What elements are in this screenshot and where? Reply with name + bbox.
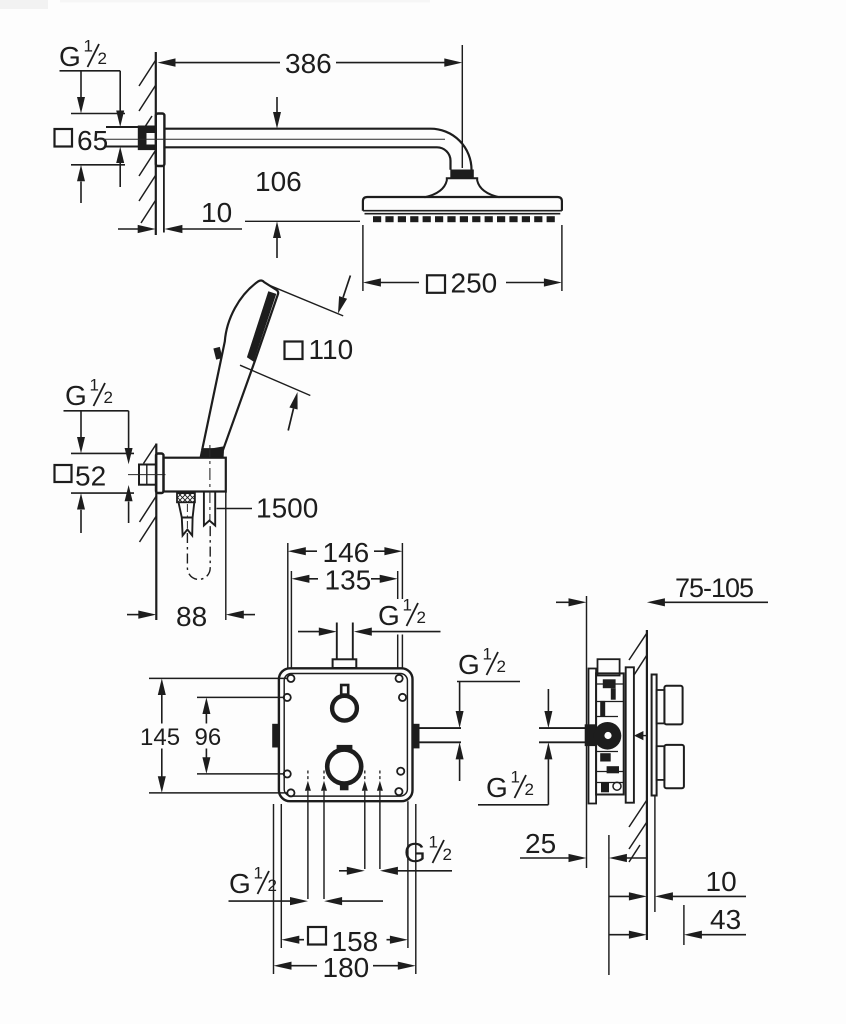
dimension square-110 extension line upper [269, 285, 343, 316]
wall hatching top (side view) [629, 633, 647, 675]
holder centre line (dash-dot) [209, 445, 211, 521]
dimension 386 extension line [461, 45, 463, 168]
svg-text:G: G [404, 837, 426, 868]
hose connection nut (cross hatched) [177, 493, 195, 502]
hose centre line in protector [186, 504, 188, 528]
slash of G1/2 hand shower [94, 383, 106, 406]
box screw holes [284, 675, 407, 797]
dimension square-250 extension lines [363, 225, 562, 291]
bottom handle (side view) [657, 745, 684, 788]
svg-text:146: 146 [323, 537, 370, 568]
label square-110 [285, 334, 354, 365]
leader underline of G1/2 top left [60, 70, 121, 72]
svg-text:2: 2 [104, 388, 113, 407]
plaster guard [626, 667, 634, 802]
svg-text:1: 1 [483, 645, 492, 664]
dimension square-110 extension line lower [240, 365, 310, 395]
svg-text:1: 1 [90, 376, 99, 395]
extension lines 180 below box [274, 804, 416, 974]
dimension G1/2 arrow up to stub bottom [125, 485, 133, 523]
svg-text:2: 2 [417, 608, 426, 627]
slash of G1/2 side view [515, 775, 527, 798]
box left side port (dark) [272, 724, 279, 748]
hand shower spray face strip (dark) [247, 291, 276, 361]
svg-text:G: G [486, 772, 508, 803]
side view port union (dark) [585, 724, 596, 746]
svg-text:250: 250 [451, 268, 498, 299]
label G1/2 (bottom left ports) [229, 864, 277, 900]
slash of G1/2 bottom left [258, 871, 270, 894]
wall line (side view) [646, 630, 648, 940]
dimension 75-105 arrows [556, 598, 768, 606]
bottom port indicator arrows (dashed) [305, 771, 383, 802]
svg-text:1: 1 [511, 768, 520, 787]
dimension 10 arrows (side view) [610, 892, 747, 900]
svg-text:2: 2 [443, 845, 452, 864]
hose protector tube lower with broken end [182, 518, 193, 536]
trim escutcheon plate (side view) [652, 675, 657, 796]
head shower plate [363, 197, 562, 211]
rough-in box outer outline [279, 668, 413, 801]
leader underline G1/2 right port [457, 681, 520, 683]
extension line square-65 bottom [71, 164, 125, 166]
shower arm centre line [100, 138, 445, 140]
leader underline G1/2 side view [478, 804, 548, 806]
hand shower handle nut (dark) [200, 446, 225, 457]
head shower plate bottom rim [363, 211, 562, 214]
svg-text:1: 1 [429, 833, 438, 852]
dimension line 180 with arrows [274, 962, 416, 970]
wall line (holder) [155, 444, 157, 621]
escutcheon front line below (top assembly) [163, 166, 165, 233]
hand shower body [202, 281, 278, 450]
hose protector tube upper [179, 502, 195, 517]
rough-in box inner outline [284, 674, 407, 797]
svg-text:G: G [378, 600, 400, 631]
svg-text:G: G [458, 649, 480, 680]
label G1/2 (top stub) [378, 596, 426, 632]
label square-52 [55, 461, 107, 492]
dimension line 135 with arrows [291, 575, 397, 583]
dimension 96 extension lines [197, 697, 284, 774]
svg-text:1: 1 [84, 37, 93, 56]
dimension line square-158 with arrows [281, 936, 408, 944]
svg-text:180: 180 [323, 952, 370, 983]
extension line square-65 top [71, 113, 125, 115]
svg-text:G: G [229, 868, 251, 899]
extension line body front plane [586, 596, 588, 868]
svg-text:10: 10 [201, 197, 232, 228]
dimension arrows bottom right port [339, 867, 452, 875]
extension line square-52 bottom [71, 492, 134, 494]
side view left pipe stub [539, 728, 588, 742]
svg-text:2: 2 [497, 657, 506, 676]
svg-text:135: 135 [325, 565, 372, 596]
label square-65 [55, 125, 109, 156]
svg-text:96: 96 [195, 724, 222, 751]
dimension 106 lower arrow (up onto spray face line) [273, 221, 281, 258]
svg-text:75-105: 75-105 [675, 573, 753, 603]
shower hose (dash-dot centre line U) [187, 524, 210, 579]
dimension 146 extension lines [288, 543, 403, 668]
svg-text:386: 386 [285, 48, 332, 79]
extension line spray face level [245, 220, 360, 222]
extension lines 158 below box [281, 801, 408, 948]
dimension 106 upper arrow (down onto arm) [273, 97, 281, 129]
wall hatching (top assembly) [139, 60, 156, 223]
valve body top bracket [598, 659, 620, 675]
dimension arrows side view port [544, 689, 552, 805]
leader line 1500 [217, 508, 253, 510]
extension line square-52 top [71, 452, 134, 454]
box right side port (dark) [413, 724, 420, 749]
svg-text:G: G [59, 41, 81, 72]
dimension 145 extension lines [149, 678, 288, 793]
holder body [164, 458, 226, 492]
dimension line 386 with arrows [158, 58, 463, 66]
cartridge (dark circle) [594, 722, 622, 750]
slash of G1/2 top left [88, 44, 100, 67]
svg-text:G: G [65, 380, 87, 411]
top pipe flange [333, 659, 357, 668]
valve body (side view) [596, 673, 624, 794]
lower control opening (circle with tab) [327, 745, 361, 790]
label G1/2 (bottom right ports) [404, 833, 452, 869]
dimension 135 extension lines [291, 571, 397, 668]
arm escutcheon (wall rosette, edge view) [156, 114, 165, 167]
svg-text:88: 88 [176, 601, 207, 632]
head shower nozzle band [373, 216, 555, 222]
svg-text:2: 2 [268, 876, 277, 895]
svg-text:110: 110 [309, 334, 354, 365]
slash of G1/2 box right port [487, 652, 499, 675]
dimension arrows bottom left port [229, 897, 384, 905]
extension line 25-43 (x608.9) [608, 835, 610, 975]
holder supply stub [139, 465, 156, 485]
holder outlet tube with broken end [204, 492, 215, 526]
connector nut arm to head (dark) [450, 170, 474, 178]
right port pipe stub [420, 728, 462, 742]
dimension square-65 arrow up [77, 165, 85, 203]
head shower mount cone [425, 178, 500, 197]
escutcheon extension line down [654, 796, 656, 913]
label square-250 [427, 268, 497, 299]
dimension G1/2 arrow down to pipe [116, 71, 124, 127]
svg-text:25: 25 [525, 828, 556, 859]
dimension square-52 arrow down [77, 411, 85, 454]
dimension square-52 arrow up [77, 493, 85, 533]
shower arm horizontal tube [165, 129, 438, 148]
svg-text:52: 52 [75, 461, 106, 492]
dimension square-65 arrow down [77, 71, 85, 114]
faint scan artifact top strip [60, 0, 430, 3]
label G1/2 (box right port) [458, 645, 506, 681]
valve body internal lines [596, 684, 624, 783]
dimension square-110 lower arrow [288, 392, 297, 431]
dimension G1/2 arrow up to pipe bottom [116, 147, 124, 188]
label G1/2 (top left) [59, 37, 107, 73]
dimension 43 arrows [610, 931, 747, 939]
wall hatching (holder) [140, 444, 157, 542]
holder stub centre line [128, 474, 166, 476]
top supply pipe of box [337, 623, 353, 660]
dimension 96 arrows [202, 697, 210, 774]
upper control opening (circle with tab) [332, 685, 357, 721]
dimension 88 arrows [127, 611, 255, 619]
union nut (dark) at wall [138, 126, 156, 151]
dimension G1/2 arrow down to holder stub [125, 411, 133, 465]
extension line knob front (43) [683, 905, 685, 945]
svg-text:65: 65 [77, 125, 108, 156]
supply pipe stub (left of wall) [106, 127, 139, 147]
holder escutcheon [156, 454, 164, 494]
dimension line square-250 with arrows [363, 278, 562, 286]
svg-text:145: 145 [140, 724, 180, 751]
dimension arrows right port pipe [456, 682, 464, 782]
dimension G1/2 stub arrows [298, 628, 441, 636]
dimension 10 arrows at wall [118, 225, 242, 233]
faint scan artifact top-left [0, 0, 48, 9]
slash of G1/2 bottom right [433, 840, 445, 863]
svg-text:10: 10 [706, 866, 737, 897]
shower arm bend [431, 129, 472, 170]
dimension line 146 with arrows [288, 547, 403, 555]
extension lines below box [308, 801, 380, 899]
mounting rail (behind wall) [589, 669, 597, 804]
svg-text:2: 2 [98, 49, 107, 68]
svg-text:43: 43 [710, 904, 741, 935]
dimension 25 arrows [520, 854, 647, 862]
hand shower button [213, 347, 222, 360]
dimension square-110 upper arrow [338, 276, 350, 314]
svg-text:1500: 1500 [256, 493, 318, 524]
wall line (top assembly) [155, 52, 157, 235]
label square-158 [308, 926, 378, 957]
valve body small circle detail [613, 782, 621, 790]
svg-text:2: 2 [525, 780, 534, 799]
slash of G1/2 top stub [407, 603, 419, 626]
leader underline G1/2 hand shower [64, 410, 129, 412]
label G1/2 (hand shower) [65, 376, 113, 412]
svg-text:1: 1 [403, 596, 412, 615]
top handle (side view) [657, 686, 683, 725]
valve body dark details [600, 679, 619, 792]
dimension 88 right extension line [225, 492, 227, 621]
dimension 145 arrows [158, 678, 166, 793]
wall hatching bottom (side view) [629, 800, 647, 862]
flow depth arrow at guard [634, 731, 647, 740]
svg-text:1: 1 [254, 864, 263, 883]
label G1/2 (side view port) [486, 768, 534, 804]
svg-text:106: 106 [255, 166, 302, 197]
